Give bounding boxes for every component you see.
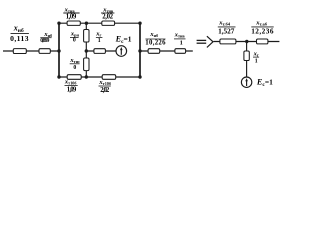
resistor x_нб 0,869	[39, 49, 50, 54]
resistor x_т10б 1,09 bottom	[67, 75, 81, 80]
node dot bus B middle	[138, 49, 141, 52]
svg-text:1: 1	[180, 39, 183, 46]
node dot branch middle	[85, 49, 88, 52]
svg-text:0: 0	[73, 65, 76, 71]
svg-text:1,09: 1,09	[67, 86, 77, 93]
node dot bus B top	[138, 22, 141, 25]
resistor x_т.б4 1,527	[220, 39, 236, 44]
svg-text:xт.аб: xт.аб	[255, 19, 267, 26]
resistor x_т10б 2,02 bottom	[102, 75, 116, 80]
resistor x_тнв 1,09 top	[67, 21, 80, 25]
svg-text:0,869: 0,869	[40, 38, 49, 44]
svg-text:xнб: xнб	[43, 31, 52, 38]
node dot bus B bottom	[138, 75, 141, 78]
bus B vertical	[139, 23, 141, 77]
node dot branch bottom	[85, 75, 88, 78]
svg-text:xнб: xнб	[149, 31, 158, 38]
svg-text:xтнс: xтнс	[69, 57, 80, 64]
resistor x_т.аб 12,236	[257, 39, 268, 44]
node dot bus A top	[57, 22, 60, 25]
resistor x_тнс 0 vertical	[84, 58, 89, 71]
wire right rail from bus B	[140, 50, 193, 52]
svg-text:xт.б4: xт.б4	[218, 19, 230, 26]
svg-text:xтнв: xтнв	[102, 6, 114, 13]
resistor x_тнв 2,02 top	[102, 21, 115, 25]
node dot branch top	[85, 22, 88, 25]
svg-text:xтнв: xтнв	[174, 31, 186, 38]
svg-text:1: 1	[255, 58, 258, 64]
svg-text:xтнв: xтнв	[64, 6, 76, 13]
resistor x_нб 10,226	[148, 49, 160, 54]
resistor x_тнв 1	[175, 49, 186, 54]
resistor x_рн 0 vertical	[84, 30, 89, 43]
vertical wire from junction to EMF right	[246, 42, 248, 78]
svg-text:1,09: 1,09	[66, 13, 77, 20]
node dot right circuit	[245, 40, 248, 43]
svg-text:Eс=1: Eс=1	[256, 77, 273, 87]
EMF arrow left	[120, 49, 122, 55]
implication arrow chevron	[207, 36, 213, 47]
EMF source E_C circle left	[116, 46, 127, 57]
svg-text:1: 1	[98, 38, 101, 44]
resistor x_нб 0,113	[13, 49, 26, 54]
svg-text:Eс=1: Eс=1	[115, 35, 132, 45]
svg-text:2,02: 2,02	[100, 87, 110, 94]
EMF arrow right	[246, 80, 248, 86]
wire bottom rail	[59, 76, 140, 78]
svg-text:2,02: 2,02	[102, 13, 113, 20]
wire middle rail left	[3, 50, 59, 52]
node dot bus A bottom	[57, 75, 60, 78]
svg-text:1,527: 1,527	[218, 27, 235, 36]
resistor x_г 1	[94, 49, 106, 54]
implication arrow bars	[197, 39, 207, 41]
wire top rail	[59, 22, 140, 24]
svg-text:xт10б: xт10б	[64, 78, 77, 85]
EMF source E_C circle right	[241, 77, 251, 87]
svg-text:10,226: 10,226	[145, 40, 166, 47]
svg-text:0: 0	[73, 38, 76, 44]
wire right circuit	[214, 41, 280, 43]
svg-text:xг: xг	[253, 50, 259, 57]
wire middle branch to generator	[86, 50, 116, 52]
svg-text:xг: xг	[95, 31, 101, 38]
bus A vertical	[58, 23, 60, 77]
svg-text:xт10б: xт10б	[98, 79, 111, 86]
svg-text:12,236: 12,236	[251, 27, 274, 36]
svg-text:0,113: 0,113	[10, 34, 29, 43]
svg-text:xнб: xнб	[13, 24, 24, 35]
resistor x_г 1 vertical right	[244, 51, 249, 61]
vertical branch wire	[85, 23, 87, 77]
node dot bus A middle	[57, 49, 60, 52]
